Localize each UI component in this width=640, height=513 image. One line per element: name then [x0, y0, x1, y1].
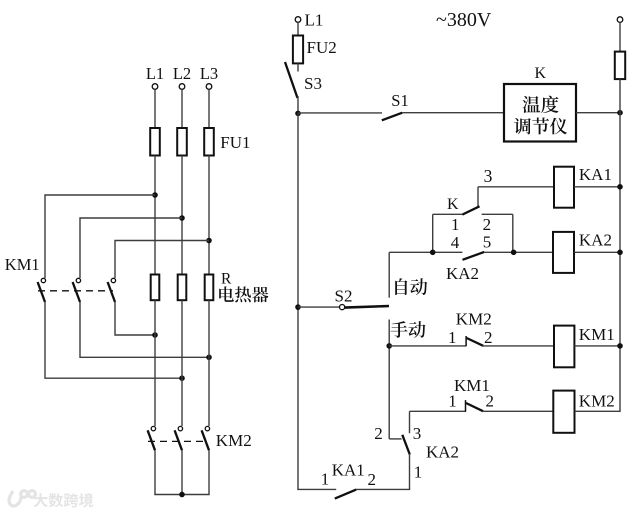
contact KM1 NC tick	[465, 400, 467, 412]
wire KM1 NC to KM2 coil	[483, 410, 554, 412]
wire S3 to junction	[297, 96, 299, 113]
svg-text:4: 4	[451, 233, 460, 252]
wire bottom right	[356, 488, 410, 490]
svg-text:S3: S3	[304, 74, 322, 93]
contactor KM1 main contact pole3 blade	[108, 282, 115, 302]
wire KM2 pole3 down	[208, 450, 210, 494]
svg-text:1: 1	[321, 469, 330, 488]
terminal L1 (main)	[152, 84, 158, 90]
fuse FU2	[293, 36, 303, 64]
fuse FU1 phase L2	[177, 128, 187, 156]
svg-text:KM1: KM1	[5, 255, 40, 274]
label manual (shou dong)	[391, 321, 408, 338]
KM2 interlock dashed link	[148, 440, 207, 442]
wire KA1 coil to rail	[574, 186, 620, 188]
wire auto branch to KA2 row	[389, 251, 462, 253]
terminal L1 (control)	[295, 17, 301, 23]
wire KM2 pole1 down	[154, 450, 156, 494]
contactor coil KM1	[554, 326, 574, 368]
junction left rail / S2	[295, 304, 301, 310]
terminal right rail top	[617, 17, 623, 23]
contact KA2 self-hold blade	[463, 252, 485, 260]
contactor KM2 main contact pole1 terminal	[151, 426, 155, 430]
wire KM2 pole2 down	[181, 450, 183, 494]
terminal L2 (main)	[179, 84, 185, 90]
wire bottom left	[297, 488, 336, 490]
resistor R heater element 1	[151, 275, 160, 301]
wire KA2 NO riser	[409, 411, 411, 433]
fuse right rail	[615, 52, 625, 80]
svg-text:KM2: KM2	[456, 309, 492, 328]
wire KA2 pin2 foot	[389, 438, 401, 440]
svg-text:L3: L3	[200, 64, 218, 83]
wire L3 junction to KM1 pole3	[115, 241, 209, 279]
svg-text:KM2: KM2	[579, 391, 615, 410]
K contact blade	[462, 206, 479, 214]
junction right rail / KA2	[617, 250, 623, 256]
contactor KM2 main contact pole3 terminal	[205, 426, 209, 430]
wire right rail to fuse	[619, 22, 621, 51]
wire heater2 down	[181, 300, 183, 426]
svg-text:FU2: FU2	[307, 38, 337, 57]
junction star point	[179, 492, 185, 498]
terminal L3 (main)	[206, 84, 212, 90]
relay coil KA1	[554, 167, 574, 208]
svg-text:5: 5	[483, 232, 492, 251]
svg-text:2: 2	[485, 391, 494, 410]
junction bracket left / KA2 row	[430, 250, 436, 256]
wire left rail	[297, 113, 299, 489]
svg-text:1: 1	[448, 328, 457, 347]
wire right rail	[619, 79, 621, 411]
wire K contact pin2 segment	[482, 213, 513, 215]
svg-text:~380V: ~380V	[436, 9, 492, 31]
relay coil KA2	[553, 232, 574, 273]
switch S2 blade	[345, 306, 389, 308]
contactor KM2 main contact pole1 blade	[148, 430, 155, 450]
junction KM1 pole1 / L2	[179, 375, 185, 381]
wire KM1 pole1 to L2 bottom	[45, 302, 182, 378]
svg-text:L1: L1	[146, 64, 164, 83]
contactor KM2 main contact pole2 blade	[175, 430, 182, 450]
wire junction to S1	[298, 112, 382, 114]
svg-text:2: 2	[483, 215, 492, 234]
label auto (zi dong)	[395, 278, 407, 295]
svg-text:2: 2	[484, 328, 493, 347]
svg-text:2: 2	[374, 424, 383, 443]
wire L3 to FU1	[208, 89, 210, 128]
wire KM1 coil to rail	[574, 345, 620, 347]
svg-text:KA2: KA2	[426, 443, 459, 462]
wire auto branch	[388, 252, 390, 297]
svg-text:S2: S2	[335, 286, 353, 305]
contactor KM1 main contact pole2 terminal	[76, 278, 80, 282]
wire FU2 to S3	[297, 63, 299, 71]
wire KM2 NC to KM1 coil	[483, 345, 555, 347]
wire KM2 row left	[410, 410, 467, 412]
wire bracket right	[512, 214, 514, 252]
resistor R heater element 3	[205, 275, 214, 301]
contact KM2 NC tick	[465, 336, 467, 346]
switch S1 blade	[382, 113, 403, 121]
fuse FU1 phase L1	[150, 128, 160, 156]
switch S2 pivot	[340, 305, 345, 310]
label heater (dian re qi)	[219, 286, 234, 302]
svg-text:KA2: KA2	[446, 264, 479, 283]
switch S3 blade	[285, 62, 298, 98]
svg-text:KA2: KA2	[579, 231, 612, 250]
wire manual to KM2 NC contact	[389, 345, 466, 347]
svg-text:KM2: KM2	[216, 431, 252, 450]
svg-text:L2: L2	[173, 64, 191, 83]
contactor KM1 main contact pole3 terminal	[111, 278, 115, 282]
junction right rail / KA1	[617, 184, 623, 190]
wire L2 junction to KM1 pole2	[80, 218, 182, 278]
wire heater3 down	[208, 300, 210, 426]
contactor KM1 main contact pole2 blade	[73, 282, 80, 302]
watermark text	[34, 493, 48, 507]
junction on L2	[179, 215, 185, 221]
junction manual / KM1 row	[386, 343, 392, 349]
svg-text:KA1: KA1	[332, 460, 365, 479]
wire KM2 coil to rail corner	[575, 410, 621, 412]
svg-text:K: K	[447, 196, 459, 213]
wire KA2 common down	[409, 454, 411, 490]
wire manual branch	[388, 320, 390, 439]
wire K contact pin1 segment	[433, 213, 463, 215]
wire S1 to controller	[402, 112, 504, 114]
wire L1 fuse to heater	[154, 156, 156, 275]
fuse FU1 phase L3	[204, 128, 214, 156]
wire KM1 pole2 to L3 bottom	[80, 302, 209, 357]
wire L1 junction to KM1 pole1	[45, 195, 155, 278]
wire KM1 pole3 to L1 bottom	[115, 302, 155, 335]
contact KM1 NC blade	[466, 403, 483, 411]
svg-text:3: 3	[413, 424, 422, 443]
controller text tiao-jie-yi	[514, 118, 531, 135]
svg-text:FU1: FU1	[220, 133, 250, 152]
svg-text:K: K	[535, 65, 547, 82]
wire to KA1 coil	[478, 186, 554, 188]
wire L2 to FU1	[181, 89, 183, 128]
junction right rail / controller	[617, 110, 623, 116]
KM1 interlock dashed link	[38, 290, 113, 292]
contactor KM2 main contact pole2 terminal	[178, 426, 182, 430]
wire bracket left	[432, 214, 434, 252]
contactor KM1 main contact pole1 terminal	[41, 278, 45, 282]
wire L1 to FU1	[154, 89, 156, 128]
contact KA2 changeover blade	[402, 435, 410, 455]
temperature controller K box	[504, 84, 576, 142]
junction on L3	[206, 238, 212, 244]
wire L1 to FU2	[297, 22, 299, 35]
wire star point join	[154, 494, 209, 496]
wire S2 feed	[298, 306, 340, 308]
svg-text:S1: S1	[391, 91, 408, 110]
wire controller to right rail	[576, 112, 620, 114]
wire heater1 down	[154, 300, 156, 426]
wire L3 fuse to heater	[208, 156, 210, 275]
contact KM2 NC blade	[467, 338, 484, 346]
svg-text:L1: L1	[305, 11, 324, 30]
svg-text:2: 2	[368, 470, 377, 489]
wire KA2 coil to rail	[574, 251, 620, 253]
junction on L1	[152, 192, 158, 198]
resistor R heater element 2	[178, 275, 187, 301]
svg-text:1: 1	[448, 391, 457, 410]
controller text wen-du	[523, 96, 541, 113]
svg-text:1: 1	[451, 215, 460, 234]
svg-text:3: 3	[484, 166, 493, 186]
junction left rail top	[295, 111, 301, 117]
contactor KM2 main contact pole3 blade	[202, 430, 209, 450]
svg-text:KM1: KM1	[579, 325, 615, 344]
contactor KM1 main contact pole1 blade	[38, 282, 45, 302]
junction right rail / KM1	[617, 343, 623, 349]
contact KA1 NO blade	[335, 490, 356, 499]
junction KM1 pole2 / L3	[206, 355, 212, 361]
wire K contact common up	[477, 187, 479, 207]
contactor coil KM2	[553, 391, 574, 433]
svg-text:R: R	[221, 270, 232, 287]
svg-text:1: 1	[414, 462, 423, 481]
junction bracket right / KA2 row	[511, 250, 517, 256]
watermark logo	[9, 491, 35, 506]
junction KM1 pole3 / L1	[152, 332, 158, 338]
wire KA2 row to coil	[484, 251, 553, 253]
wire L2 fuse to heater	[181, 156, 183, 275]
svg-text:KA1: KA1	[579, 165, 612, 184]
